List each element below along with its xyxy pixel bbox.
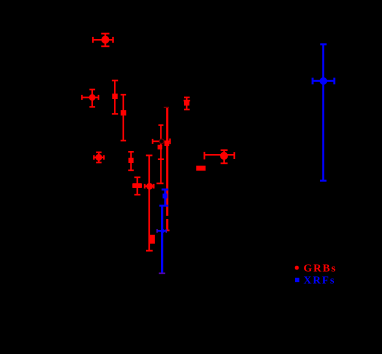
B2 x error right cap xyxy=(165,229,167,233)
F8 y error mid cap xyxy=(158,158,164,160)
GRB data point F1 (105.3,39.7) xyxy=(93,34,113,47)
F9 y error bottom cap xyxy=(166,229,170,231)
F5 x error right cap xyxy=(103,155,105,160)
F3 y error top cap xyxy=(112,80,118,82)
F11 y error bottom cap xyxy=(184,109,190,111)
F11 square marker xyxy=(184,100,189,105)
F2 x error left cap xyxy=(81,95,83,100)
F6 y error bottom cap xyxy=(128,169,134,171)
F5 y error top cap xyxy=(96,151,102,153)
F1 y error top cap xyxy=(101,33,109,35)
F1 x error left cap xyxy=(92,37,94,43)
F5 y error bottom cap xyxy=(96,162,102,164)
F4 y error bottom cap xyxy=(121,140,127,142)
F11 x error bar xyxy=(184,100,191,102)
GRB data point F9 tall bar (167.2) xyxy=(164,107,170,230)
B1 y error bar xyxy=(164,189,166,205)
F4 square marker xyxy=(121,110,127,115)
F18 x error bar xyxy=(313,80,335,82)
F2 y error bar xyxy=(91,89,93,107)
F9 y error top cap (dim) xyxy=(164,106,169,108)
F4 y error bar xyxy=(122,95,124,141)
F9 square marker xyxy=(164,141,169,146)
F13 circle marker xyxy=(221,153,227,159)
F5 y error bar xyxy=(98,152,100,162)
F7 x error left cap xyxy=(144,184,146,189)
B2 x error bar xyxy=(157,230,166,232)
F18 x error right cap xyxy=(333,78,335,85)
F7 y error top cap xyxy=(146,154,153,156)
F18 circle marker xyxy=(321,78,327,84)
F14 square marker xyxy=(133,183,141,188)
F12 marker rect xyxy=(196,166,205,171)
F1 x error bar xyxy=(93,39,113,41)
B1 y error bottom cap xyxy=(159,205,168,207)
F1 circle marker xyxy=(102,37,108,43)
F13 y error top cap xyxy=(221,149,228,151)
F14 x error bar xyxy=(133,185,141,187)
F13 y error bar xyxy=(223,150,225,163)
GRB data point F4 (123.4,112.8) xyxy=(121,95,127,141)
GRB data point F12 small rect (200.9,168.2) xyxy=(196,166,205,171)
F14 y error bottom cap xyxy=(134,194,140,196)
F8 x error bar xyxy=(152,140,170,142)
GRB data point F13 (224,155.8) xyxy=(204,150,234,163)
GRB data point F5 (98.8,157.4) xyxy=(94,152,104,162)
F18 y error bar xyxy=(322,44,324,181)
F6 y error bar xyxy=(130,152,132,171)
B2 y error bar xyxy=(161,206,163,274)
F3 square marker xyxy=(112,94,118,99)
F13 y error bottom cap xyxy=(221,162,228,164)
F8 y error bottom cap xyxy=(157,182,164,184)
F8 square marker xyxy=(158,145,163,150)
F14 y error bar xyxy=(136,177,138,195)
GRB data point F3 (114.9,96.3) xyxy=(112,80,118,114)
GRB data point F8 cluster (160.9) xyxy=(152,125,170,184)
F2 circle marker xyxy=(90,95,95,100)
F4 y error top cap xyxy=(121,94,127,96)
XRF data point B1 (165,196) xyxy=(159,189,168,205)
F1 x error right cap xyxy=(112,37,114,43)
B2 y error bottom cap (dim) xyxy=(159,272,165,274)
F2 y error bottom cap xyxy=(89,106,95,108)
F1 y error bar xyxy=(104,34,106,47)
F1 y error bottom cap xyxy=(101,45,109,47)
F14 y error top cap xyxy=(134,176,140,178)
F11 y error bar xyxy=(186,97,188,109)
F9 y error bar lower xyxy=(166,219,168,230)
F8 y error bar xyxy=(160,125,162,184)
F6 square marker xyxy=(128,158,133,163)
B2 x error left cap xyxy=(156,229,158,233)
B2 diamond marker xyxy=(160,228,165,233)
F11 y error top cap xyxy=(184,96,190,98)
F8 y error top cap xyxy=(158,124,163,126)
XRF data point F18 (323.4,81) xyxy=(313,44,335,181)
F2 x error right cap xyxy=(98,95,100,100)
F18 y error top cap xyxy=(320,43,326,45)
F9 y error bar upper xyxy=(166,108,168,216)
legend GRBs marker xyxy=(295,266,299,270)
F7 circle marker xyxy=(147,184,152,189)
F5 x error left cap xyxy=(93,155,95,160)
F14 x error left cap xyxy=(132,183,134,188)
XRF data point B2 (162.6,230.9) xyxy=(157,206,166,274)
svg-text:XRFs: XRFs xyxy=(304,275,336,287)
F8 open circle marker xyxy=(159,139,164,144)
F7 y error bottom cap xyxy=(146,250,153,252)
F18 y error bottom cap xyxy=(320,180,327,182)
F7 x error right cap xyxy=(153,184,155,189)
F5 x error bar xyxy=(94,156,104,158)
F6 y error top cap xyxy=(128,151,134,153)
F2 y error top cap xyxy=(89,89,95,91)
F8 x error right cap xyxy=(169,139,171,145)
F13 x error left cap xyxy=(203,152,205,160)
GRB data point F2 (92.2,97.4) xyxy=(82,89,99,107)
F7 lower square marker xyxy=(150,235,155,244)
F13 x error right cap xyxy=(233,152,235,159)
F14 x error right cap xyxy=(140,183,142,188)
B1 square marker xyxy=(163,194,168,199)
GRB data point F6 (131,160.4) xyxy=(128,152,134,171)
F7 x error bar xyxy=(145,185,154,187)
GRB data point F11 (186.6,103.1) xyxy=(184,97,191,109)
F13 x error bar xyxy=(204,154,234,156)
F3 y error bar xyxy=(114,80,116,114)
F7 y error bar xyxy=(148,155,150,251)
F5 circle marker xyxy=(96,155,101,160)
F18 x error left cap xyxy=(312,78,314,85)
legend XRFs marker xyxy=(295,278,299,282)
F3 y error bottom cap xyxy=(112,113,118,115)
B1 y error top cap xyxy=(162,189,169,191)
GRB data point F14 (137,185.6) xyxy=(133,177,141,195)
F2 x error bar xyxy=(82,96,99,98)
F8 x error left cap xyxy=(152,139,154,144)
GRB data point F7 long vertical bar (149.2) xyxy=(145,155,155,251)
svg-text:GRBs: GRBs xyxy=(304,263,337,275)
